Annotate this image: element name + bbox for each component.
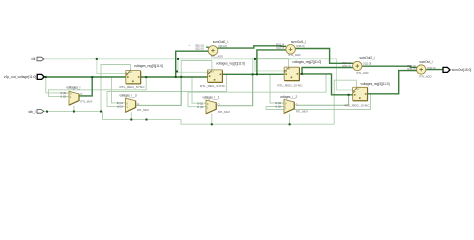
svg-text:sumOut1_i: sumOut1_i <box>291 40 306 44</box>
svg-text:I1 [11: I1 [11 <box>60 95 67 99</box>
wire mux1 I0 feed <box>46 77 69 93</box>
svg-text:sumOut[15:0]: sumOut[15:0] <box>452 68 472 72</box>
wire clk drop to reg2 C <box>255 59 284 71</box>
svg-text:O: O <box>80 92 82 96</box>
svg-text:voltages_reg[2][11:0]: voltages_reg[2][11:0] <box>292 60 321 64</box>
wire mux3 I0 feed <box>192 77 206 104</box>
svg-text:I1 [11: I1 [11 <box>197 105 204 109</box>
svg-text:RTL_REG_SYNC: RTL_REG_SYNC <box>277 84 302 88</box>
svg-text:O[11:0]: O[11:0] <box>363 61 372 65</box>
mux voltages_i__2 M4 <box>275 95 308 114</box>
svg-text:sumOut0_i: sumOut0_i <box>213 40 228 44</box>
svg-text:I0 [11: I0 [11 <box>60 91 67 95</box>
svg-text:O[11:0]: O[11:0] <box>218 44 227 48</box>
adder sumOut0_i A1 <box>195 40 228 58</box>
register voltages_reg[1][11:0] R1 <box>200 62 245 89</box>
wire mux1 I1 loop from reg0 Q <box>49 77 147 96</box>
port clk <box>31 57 43 61</box>
wire clk drop to reg0 C <box>97 59 126 74</box>
wire reg0 Q riser to adder1 I1 <box>176 51 209 77</box>
wire reg2 Q branch to adder3 I1 <box>302 68 353 74</box>
wire adder4 out to port <box>426 69 443 71</box>
svg-text:voltages_reg[0][11:0]: voltages_reg[0][11:0] <box>134 64 163 68</box>
wire mux3 S stub <box>211 114 213 125</box>
svg-text:I1 [11: I1 [11 <box>117 105 124 109</box>
wire reg1 RST riser and mux2 out rise shared column <box>181 61 212 106</box>
wire reg3 Q to riser adder4 I1 <box>367 71 417 94</box>
wire adder3 out to adder4 I0 <box>362 66 417 67</box>
svg-text:O[11:0]: O[11:0] <box>296 44 305 48</box>
wire mux1 out rise <box>79 77 92 96</box>
svg-text:sumOut_i: sumOut_i <box>419 60 432 64</box>
wire stb step down 2 <box>181 119 334 124</box>
wire reg3 RST route <box>334 80 356 124</box>
svg-text:RTL_REG_SYNC: RTL_REG_SYNC <box>345 104 370 108</box>
wire adder2 out to adder3 I0 <box>295 49 353 64</box>
svg-text:v2p_out_voltage[11:0]: v2p_out_voltage[11:0] <box>4 75 37 79</box>
svg-text:clk: clk <box>31 57 35 61</box>
wire reg2 RST riser <box>253 59 289 106</box>
svg-text:sumOut2_i: sumOut2_i <box>360 56 375 60</box>
svg-text:voltages_i__2: voltages_i__2 <box>280 95 297 99</box>
register voltages_reg[2][11:0] R2 <box>277 60 321 87</box>
wire reg1 Q to reg2 D <box>223 73 285 75</box>
svg-text:RTL_MUX: RTL_MUX <box>137 108 149 112</box>
svg-text:RTL_MUX: RTL_MUX <box>296 110 308 114</box>
mux voltages_i__3 M2 <box>117 94 150 113</box>
svg-text:voltages_reg[1][11:0]: voltages_reg[1][11:0] <box>216 62 245 66</box>
adder sumOut_i A4 <box>407 60 436 79</box>
wire mux4 S stub <box>289 114 291 125</box>
svg-text:RTL_REG_SYNC: RTL_REG_SYNC <box>200 84 225 88</box>
svg-text:I0 [11: I0 [11 <box>117 101 124 105</box>
wire mux4 I0 feed <box>270 75 284 104</box>
wire mux2 out rise <box>136 77 181 106</box>
wire reg0 Q to reg1 D <box>141 76 208 78</box>
wire clk main horizontal <box>44 58 337 60</box>
svg-text:voltages_reg[3][11:0]: voltages_reg[3][11:0] <box>361 82 390 86</box>
svg-text:O: O <box>218 103 220 107</box>
svg-text:I1[11:0]: I1[11:0] <box>195 46 204 50</box>
svg-text:I1[11:0]: I1[11:0] <box>407 67 416 71</box>
junction dots <box>45 76 47 78</box>
wire v2p bus to reg0 D <box>44 76 126 78</box>
port sumOut[15:0] <box>443 67 471 72</box>
svg-text:O: O <box>296 102 298 106</box>
svg-text:RTL_MUX: RTL_MUX <box>81 99 93 103</box>
svg-text:voltages_i__3: voltages_i__3 <box>120 94 137 98</box>
mux voltages_i__1 M3 <box>197 96 230 115</box>
wire mux4 out rise <box>296 95 349 106</box>
svg-text:I1[11:0]: I1[11:0] <box>276 46 285 50</box>
wire reg1 Q riser to adder2 I1 <box>257 50 286 74</box>
wire mux2 I0 feed <box>112 77 126 103</box>
wire mux2 I1 loop from reg1 Q <box>107 74 227 106</box>
svg-text:O[11:0]: O[11:0] <box>427 66 436 70</box>
wire reg0 RST riser <box>101 65 130 112</box>
wire reg2 Q to jog down reg3 D <box>300 74 353 95</box>
svg-text:RTL_ADD: RTL_ADD <box>211 55 223 59</box>
svg-text:I1[11:0]: I1[11:0] <box>342 64 351 68</box>
mux voltages_i M1 <box>60 86 93 106</box>
svg-text:RTL_ADD: RTL_ADD <box>420 75 432 79</box>
svg-text:I0 [11: I0 [11 <box>197 101 204 105</box>
wire clk drop to reg1 C <box>178 59 208 73</box>
wire mux3 I1 loop from reg2 Q <box>188 74 326 107</box>
wire mux2 S stub <box>130 112 132 119</box>
wire stb step down <box>103 111 182 119</box>
svg-text:RTL_ADD: RTL_ADD <box>357 71 369 75</box>
svg-text:I1 [11: I1 [11 <box>275 105 282 109</box>
wire mux4 I1 loop from reg3 Q <box>266 94 371 110</box>
svg-text:O: O <box>137 102 139 106</box>
svg-text:I0 [11: I0 [11 <box>275 101 282 105</box>
svg-text:stb_i: stb_i <box>28 110 35 114</box>
svg-text:RTL_REG_SYNC: RTL_REG_SYNC <box>120 85 145 89</box>
wire mux3 out rise <box>218 75 253 106</box>
svg-text:RTL_MUX: RTL_MUX <box>218 110 230 114</box>
port stb_i <box>28 110 43 114</box>
adder sumOut1_i A2 <box>276 40 306 57</box>
wire clk drop to reg3 C <box>337 59 353 90</box>
svg-text:RTL_ADD: RTL_ADD <box>289 53 301 57</box>
wire adder1 out to adder2 I0 <box>218 46 286 48</box>
wire adder1 I0 stub <box>206 46 209 48</box>
svg-text:voltages_i__1: voltages_i__1 <box>203 96 220 100</box>
svg-text:voltages_i: voltages_i <box>66 86 80 90</box>
register voltages_reg[0][11:0] R0 <box>120 64 164 89</box>
wire stb line from port <box>44 110 103 112</box>
port v2p_out_voltage[11:0] <box>4 74 44 79</box>
register voltages_reg[3][11:0] R3 <box>345 82 390 108</box>
wire mux1 S stub <box>73 106 75 112</box>
adder sumOut2_i A3 <box>342 56 375 75</box>
